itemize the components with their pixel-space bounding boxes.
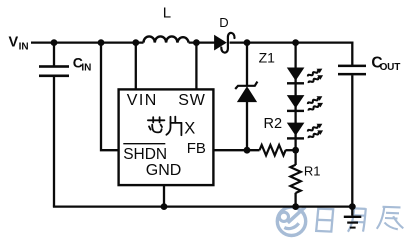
svg-text:SHDN: SHDN: [123, 146, 167, 163]
svg-text:OUT: OUT: [380, 62, 401, 73]
chip U1 body: [119, 89, 214, 185]
LED D3: [287, 123, 305, 140]
watermark char 月: [348, 208, 366, 232]
diode D curly cathode: [221, 33, 234, 53]
chip pin label FB: [187, 140, 206, 157]
label D: [219, 15, 228, 30]
node dot FB/LED bottom: [292, 147, 299, 154]
label C_OUT: [371, 55, 400, 74]
chip pin label VIN: [127, 92, 158, 109]
wire Z1 column: [246, 43, 248, 151]
svg-text:R2: R2: [264, 116, 283, 132]
chip pin label SW: [178, 92, 205, 109]
watermark logo circle: [277, 207, 305, 236]
watermark char 辰: [377, 207, 404, 230]
resistor R1 zigzag: [290, 165, 300, 193]
wire GND pin: [163, 185, 165, 207]
watermark char 日: [316, 209, 333, 232]
inductor L: [144, 36, 189, 42]
wire VIN pin: [135, 43, 137, 90]
LED D2: [287, 95, 305, 112]
node dot VIN/C_IN: [51, 39, 58, 46]
chip pin label SHDN with overline: [123, 144, 167, 163]
label VIN supply: [9, 34, 29, 52]
svg-text:IN: IN: [81, 62, 91, 73]
wire SW pin: [195, 43, 197, 90]
label R2: [264, 116, 283, 132]
chip name 芯片X: [148, 117, 182, 136]
LED D1 light arrows: [307, 66, 325, 85]
svg-text:D: D: [219, 15, 228, 30]
node dot FB/Z1: [244, 147, 251, 154]
svg-text:V: V: [9, 34, 19, 50]
node dot R1 bottom: [292, 203, 299, 210]
label R1: [304, 163, 321, 178]
node dot diode output: [244, 39, 251, 46]
svg-text:X: X: [184, 119, 195, 137]
node dot LED top: [292, 39, 299, 46]
node dot C_OUT/ground: [349, 203, 356, 210]
svg-text:FB: FB: [187, 140, 206, 157]
label C_IN: [73, 55, 92, 74]
diode D triangle: [215, 36, 226, 50]
svg-text:GND: GND: [146, 162, 182, 179]
svg-text:L: L: [163, 4, 171, 21]
LED D1: [287, 68, 305, 85]
zener Z1 cathode bar: [235, 82, 257, 89]
svg-text:Z1: Z1: [259, 50, 276, 66]
wire LED column: [294, 43, 296, 207]
wire C_OUT column: [351, 42, 353, 216]
wire C_IN vertical: [53, 43, 55, 207]
node dot VIN pin: [132, 39, 139, 46]
capacitor C_OUT plates: [338, 65, 366, 76]
resistor R2 zigzag: [260, 145, 286, 155]
LED D2 light arrows: [307, 94, 325, 113]
node dot SW/L: [193, 39, 200, 46]
svg-text:VIN: VIN: [127, 92, 158, 109]
wire top VIN rail: [31, 41, 353, 43]
node dot SHDN pullup: [98, 39, 105, 46]
label Z1: [259, 50, 276, 66]
svg-text:SW: SW: [178, 92, 205, 109]
svg-text:IN: IN: [19, 41, 29, 52]
capacitor C_IN plates: [39, 65, 69, 77]
ground symbol: [344, 216, 362, 229]
zener Z1 triangle: [238, 87, 256, 101]
wire SHDN pull-up to VIN rail: [101, 42, 118, 151]
node dot GND rail: [161, 203, 168, 210]
LED D3 light arrows: [307, 121, 325, 140]
svg-text:R1: R1: [304, 163, 321, 178]
label L: [163, 4, 171, 21]
wire FB line: [215, 149, 296, 151]
wire bottom ground rail: [53, 205, 354, 207]
chip pin label GND: [146, 162, 182, 179]
